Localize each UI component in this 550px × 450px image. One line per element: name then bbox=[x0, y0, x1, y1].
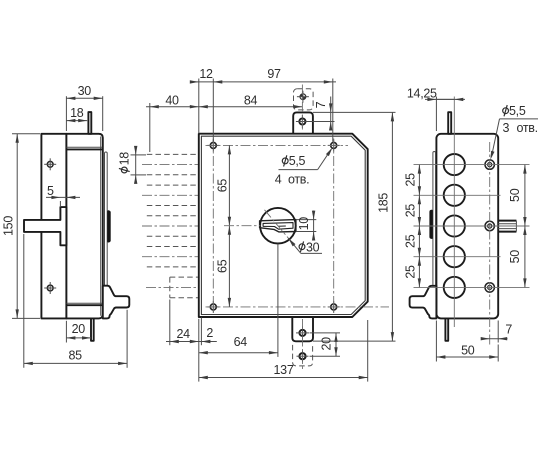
RIGHT VIEW bbox=[404, 86, 539, 361]
top pin bbox=[88, 112, 91, 134]
screw hole ring row1 bbox=[485, 160, 494, 169]
cylinder circle row2 bbox=[444, 185, 465, 206]
label diameter 5,5 4 holes bbox=[275, 148, 333, 187]
dimension 137 bbox=[199, 320, 368, 382]
svg-text:5,5: 5,5 bbox=[509, 104, 526, 118]
svg-text:20: 20 bbox=[72, 322, 86, 336]
top mounting tab bbox=[293, 112, 313, 133]
svg-text:7: 7 bbox=[314, 101, 328, 108]
hidden cylinder hole rows (dashed) row1 bbox=[142, 154, 199, 174]
keyway inner slot bbox=[263, 223, 293, 230]
dimension 20 bbox=[65, 321, 67, 343]
dimension 40 and 84 bbox=[146, 93, 302, 152]
svg-text:отв.: отв. bbox=[288, 172, 309, 186]
svg-text:150: 150 bbox=[2, 216, 16, 236]
svg-text:25: 25 bbox=[404, 265, 418, 279]
svg-text:18: 18 bbox=[70, 106, 84, 120]
bottom pin bbox=[91, 318, 94, 340]
svg-text:отв.: отв. bbox=[517, 121, 538, 135]
screw hole ring row5 bbox=[485, 283, 494, 292]
black detent tab bbox=[107, 210, 111, 242]
dimension 18 bbox=[66, 120, 87, 122]
dimension 5 bbox=[59, 201, 61, 207]
cylinder circle row5 bbox=[444, 277, 465, 298]
ghost bottom tab hole bbox=[297, 350, 309, 362]
hidden row3 bbox=[142, 216, 199, 236]
dimension 150 bbox=[12, 133, 40, 135]
top pin bbox=[448, 112, 451, 134]
hidden latch channel row5 bbox=[146, 277, 199, 298]
svg-text:84: 84 bbox=[244, 94, 258, 108]
keyhole circle bbox=[260, 208, 296, 244]
bottom mounting tab bbox=[292, 317, 313, 341]
dimension chain 25 x4 bbox=[404, 165, 422, 288]
svg-text:97: 97 bbox=[267, 67, 281, 81]
keyhole diagonal centre line bbox=[265, 210, 292, 243]
spindle shaft protruding right bbox=[498, 221, 516, 232]
cylinder circle row1 bbox=[444, 154, 465, 175]
keyhole horizontal centre line bbox=[224, 225, 260, 227]
black detent tab bbox=[429, 210, 432, 239]
cylinder circle row3 bbox=[444, 215, 465, 236]
svg-text:50: 50 bbox=[508, 250, 522, 264]
top tab hole bbox=[296, 115, 309, 128]
hidden row4 bbox=[142, 247, 199, 267]
svg-text:40: 40 bbox=[165, 93, 179, 107]
svg-text:185: 185 bbox=[377, 193, 391, 213]
row centre line 3 bbox=[414, 225, 530, 227]
cylinder column centre line bbox=[453, 97, 455, 328]
bottom tab hole bbox=[296, 326, 309, 339]
dimension 20 (bottom tab offset) bbox=[310, 333, 341, 356]
corner hole bottom-right bbox=[328, 301, 340, 313]
svg-text:50: 50 bbox=[508, 188, 522, 202]
svg-text:137: 137 bbox=[274, 363, 294, 377]
svg-text:65: 65 bbox=[216, 179, 230, 193]
row centre line 5 bbox=[414, 286, 530, 288]
screw hole ring row3 bbox=[485, 221, 494, 230]
label diameter 30 bbox=[288, 238, 322, 254]
svg-text:2: 2 bbox=[206, 326, 213, 340]
svg-text:25: 25 bbox=[404, 204, 418, 218]
LEFT VIEW bbox=[2, 84, 147, 368]
svg-text:12: 12 bbox=[199, 67, 213, 81]
corner hole top-left bbox=[207, 139, 219, 151]
svg-text:85: 85 bbox=[69, 349, 83, 363]
svg-text:14,25: 14,25 bbox=[407, 86, 437, 100]
svg-text:5,5: 5,5 bbox=[289, 154, 306, 168]
MIDDLE VIEW bbox=[142, 67, 396, 382]
dimension diameter 18 bbox=[131, 154, 147, 156]
svg-text:18: 18 bbox=[118, 152, 132, 166]
hole centre line horizontal bottom bbox=[206, 306, 390, 308]
dimension 7 (tab hole offset) bbox=[306, 97, 396, 131]
svg-text:65: 65 bbox=[216, 259, 230, 273]
top tab centre line bbox=[301, 85, 303, 133]
row centre line 4 bbox=[414, 256, 501, 258]
plate hole lower bbox=[47, 285, 53, 291]
label diameter 5,5 3 holes bbox=[490, 104, 538, 160]
lock body side bbox=[436, 134, 498, 319]
corner hole top-right bbox=[328, 139, 340, 151]
dimension 64 bbox=[199, 335, 278, 354]
dimension chain 50 x2 bbox=[508, 165, 527, 288]
hole centre line vertical right column bbox=[333, 139, 335, 314]
keyway outer contour bbox=[260, 220, 296, 232]
dimension 12 and 97 bbox=[190, 67, 336, 142]
keyway middle ward line bbox=[278, 225, 286, 227]
dimension 24 and 2 bbox=[166, 300, 217, 382]
hole centre line vertical left column bbox=[212, 139, 214, 314]
svg-text:7: 7 bbox=[505, 322, 512, 336]
corner hole bottom-left bbox=[207, 301, 219, 313]
top cover seam lines bbox=[66, 146, 102, 148]
faceplate strip edge-on bbox=[433, 152, 436, 294]
dimension 30 bbox=[65, 96, 67, 131]
svg-text:20: 20 bbox=[320, 337, 334, 351]
dimension 50 (bottom) bbox=[436, 321, 498, 362]
row centre line 1 bbox=[414, 164, 530, 166]
bottom tab centre line bbox=[302, 319, 304, 370]
flat mounting plate bbox=[41, 134, 66, 319]
latch lever protruding left (mirrored) bbox=[410, 286, 437, 319]
ring column centre line bbox=[489, 142, 491, 345]
bottom cover seam lines bbox=[66, 302, 102, 304]
lock body case bbox=[66, 134, 102, 319]
svg-text:4: 4 bbox=[275, 172, 282, 186]
dimension 14,25 bbox=[407, 86, 465, 131]
svg-text:10: 10 bbox=[297, 217, 311, 231]
face plate outline with chamfered right corners bbox=[199, 134, 368, 317]
hole centre line horizontal top bbox=[206, 144, 349, 146]
latch lever protruding right bbox=[103, 286, 130, 319]
svg-text:30: 30 bbox=[306, 240, 320, 254]
cylinder circle row4 bbox=[444, 246, 465, 267]
ghost top tab (alternate position, dashed) bbox=[294, 89, 314, 110]
svg-text:24: 24 bbox=[177, 327, 191, 341]
dimension 185 bbox=[313, 112, 396, 341]
svg-text:50: 50 bbox=[461, 343, 475, 357]
svg-text:25: 25 bbox=[404, 234, 418, 248]
body inner right edge line bbox=[100, 137, 102, 316]
svg-text:5: 5 bbox=[47, 184, 54, 198]
ghost top tab target symbol bbox=[297, 91, 309, 103]
dimension 7 (bottom right) bbox=[481, 321, 513, 343]
bolt T-shape protruding left bbox=[24, 207, 66, 245]
hidden row2 bbox=[142, 185, 199, 205]
face plate inner contour bbox=[201, 136, 365, 314]
dimension 85 bbox=[23, 234, 25, 368]
svg-text:30: 30 bbox=[78, 84, 92, 98]
row centre line 2 bbox=[414, 194, 501, 196]
svg-text:64: 64 bbox=[234, 335, 248, 349]
svg-text:25: 25 bbox=[404, 173, 418, 187]
ghost bottom tab (dashed) bbox=[293, 345, 313, 366]
dimension 10 (keyway width) bbox=[296, 211, 316, 241]
svg-text:3: 3 bbox=[503, 121, 510, 135]
dimension chain 65 / 65 bbox=[216, 145, 232, 307]
plate hole upper bbox=[47, 161, 53, 167]
keyhole vertical extension to 64 dim bbox=[277, 244, 279, 357]
faceplate strip edge-on bbox=[105, 152, 108, 299]
bottom pin bbox=[445, 318, 448, 340]
